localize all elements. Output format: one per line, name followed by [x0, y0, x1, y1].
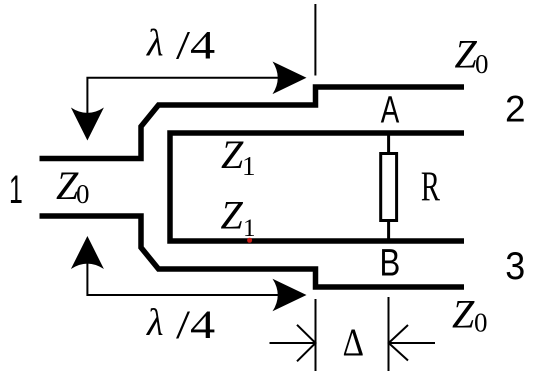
svg-text:3: 3 — [505, 244, 525, 288]
arrowhead: up, bottom-left dimension — [71, 236, 104, 269]
svg-text:Z: Z — [452, 292, 475, 337]
dimension arrow: delta left (open arrowhead pointing right) — [270, 325, 316, 362]
svg-text:1: 1 — [9, 168, 23, 212]
extension line: top step position marker — [314, 4, 316, 76]
stray red dot under lower Z1 — [247, 238, 252, 243]
label: Z1 lower branch — [221, 193, 256, 243]
svg-text:R: R — [421, 163, 440, 210]
dimension arrow: delta right (open arrowhead pointing left) — [389, 325, 435, 361]
wire: inner slot C-shape (node A top line, left wall, node B bottom line) — [170, 133, 464, 241]
svg-text:0: 0 — [474, 308, 488, 338]
label: Z0 at port 2 — [455, 32, 489, 80]
arrowhead: right, top dimension — [273, 62, 307, 95]
label: Z0 at port 1 — [56, 163, 90, 209]
resistor R body — [381, 154, 397, 221]
label: lambda/4 top — [146, 22, 215, 67]
extension line: delta right marker — [388, 297, 390, 371]
extension line: delta left marker — [315, 299, 317, 371]
svg-text:A: A — [381, 89, 400, 131]
svg-text:2: 2 — [505, 89, 526, 130]
svg-text:0: 0 — [76, 179, 90, 209]
wire: port 1 lower input trace, bend down to lower quarter-wave branch, step to port 3 line — [40, 216, 465, 287]
dimension line: top lambda/4 (vertical drop + horizontal run) — [87, 78, 298, 122]
resistor R top lead — [387, 134, 390, 154]
label: Z0 at port 3 — [452, 292, 488, 338]
svg-text:Z: Z — [221, 132, 244, 177]
svg-text:B: B — [379, 243, 400, 285]
label: Z1 upper branch — [221, 132, 256, 181]
svg-text:/4: /4 — [176, 302, 215, 347]
svg-text:Δ: Δ — [343, 321, 364, 364]
svg-text:/4: /4 — [176, 22, 215, 67]
arrowhead: down, top-left dimension — [71, 108, 104, 141]
svg-text:Z: Z — [221, 193, 244, 238]
arrowhead: right, bottom dimension — [273, 279, 307, 312]
label: lambda/4 bottom — [146, 302, 215, 347]
svg-text:1: 1 — [242, 151, 256, 181]
wire: port 1 upper input trace, bend up to upper quarter-wave branch, step to port 2 line — [40, 87, 465, 159]
svg-text:0: 0 — [475, 49, 489, 79]
svg-text:λ: λ — [146, 302, 163, 344]
resistor R bottom lead — [387, 221, 390, 241]
dimension line: bottom lambda/4 (vertical rise + horizontal run) — [87, 252, 298, 295]
svg-text:λ: λ — [146, 23, 163, 65]
